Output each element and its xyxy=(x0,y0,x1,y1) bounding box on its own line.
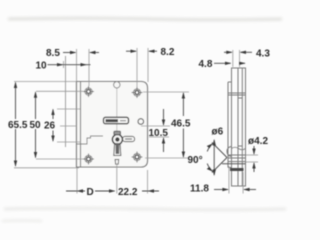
svg-text:D: D xyxy=(87,187,94,198)
svg-text:8.2: 8.2 xyxy=(161,47,175,58)
svg-text:46.5: 46.5 xyxy=(171,119,191,130)
svg-text:4.3: 4.3 xyxy=(256,49,270,60)
svg-text:4.8: 4.8 xyxy=(199,59,213,70)
svg-text:65.5: 65.5 xyxy=(8,120,28,131)
svg-text:50: 50 xyxy=(30,120,42,131)
svg-text:26: 26 xyxy=(44,121,56,132)
svg-text:22.2: 22.2 xyxy=(118,187,138,198)
svg-text:ø6: ø6 xyxy=(212,127,224,138)
svg-text:ø4.2: ø4.2 xyxy=(248,136,268,147)
svg-text:11.8: 11.8 xyxy=(190,184,209,195)
svg-text:10: 10 xyxy=(36,60,48,71)
svg-text:10.5: 10.5 xyxy=(149,128,169,139)
svg-text:8.5: 8.5 xyxy=(46,48,60,59)
svg-text:90°: 90° xyxy=(188,155,203,166)
